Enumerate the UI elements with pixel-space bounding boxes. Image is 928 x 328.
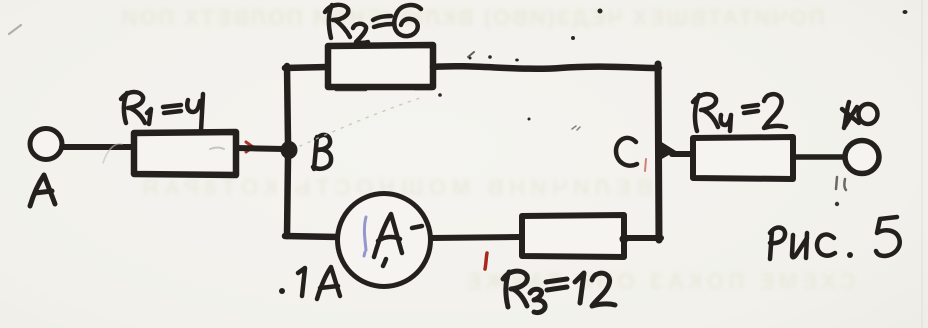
wire: ammeter to R3 <box>431 237 521 238</box>
terminal A circle <box>30 129 62 160</box>
wire R1 to node B <box>236 148 284 149</box>
red arrow on wire R1-B <box>242 142 253 152</box>
junction blob R3 right <box>620 235 629 244</box>
faint arc above R1 label <box>103 144 122 163</box>
wire A to R1 <box>62 144 133 150</box>
label D (cursive) <box>842 102 878 128</box>
wire: R2 to top-right corner <box>433 66 659 69</box>
faint bleed-through text row 3 <box>390 268 928 295</box>
resistor R1 <box>134 132 236 175</box>
faint bleed-through text row 2 <box>95 174 695 201</box>
wire: top-left to R2 <box>285 67 327 68</box>
page right edge <box>921 0 923 328</box>
ammeter A glyph <box>374 214 422 266</box>
faint smudge inside R1 <box>210 148 224 150</box>
ammeter circle <box>338 194 431 287</box>
node C arrow dot <box>660 141 676 160</box>
label R3 = 12 <box>503 271 615 312</box>
label B <box>313 135 331 169</box>
small dot above Рис <box>835 202 839 206</box>
blue pen stroke in ammeter <box>364 217 366 256</box>
label R1 = 4 <box>121 92 203 131</box>
label R4 = 2 <box>693 94 786 131</box>
tiny gray marks mid-canvas <box>572 126 580 130</box>
wire: R4 to terminal D <box>793 154 845 160</box>
resistor R2 <box>328 45 433 87</box>
wire: C to R4 <box>672 151 694 157</box>
red dash below wire <box>485 253 487 269</box>
label A <box>30 175 55 206</box>
red tick near C <box>645 159 646 171</box>
small gray marks below D <box>836 177 846 190</box>
resistor R3 <box>522 215 624 257</box>
R2 bottom double stroke <box>336 89 431 90</box>
resistor R4 <box>693 137 793 179</box>
wire: right vertical down to C and bottom <box>658 64 659 240</box>
speck dots <box>438 9 907 121</box>
node B dot <box>281 141 298 159</box>
label Рис. 5 <box>770 217 900 259</box>
label 1A <box>298 267 340 299</box>
dot before 1A <box>279 288 285 294</box>
faint dotted scribble B to R2 <box>300 98 420 146</box>
top-left corner mark <box>9 25 21 34</box>
label R2 = 6 <box>325 5 421 43</box>
wire: B down-corner to ammeter <box>285 236 338 237</box>
dot of Рис. <box>847 252 853 258</box>
terminal D circle <box>845 141 879 174</box>
wire: R3 to right vertical <box>624 235 661 241</box>
wire: left vertical from B <box>287 66 288 143</box>
faint bleed-through text row 1 <box>28 5 916 31</box>
label C <box>616 138 637 166</box>
